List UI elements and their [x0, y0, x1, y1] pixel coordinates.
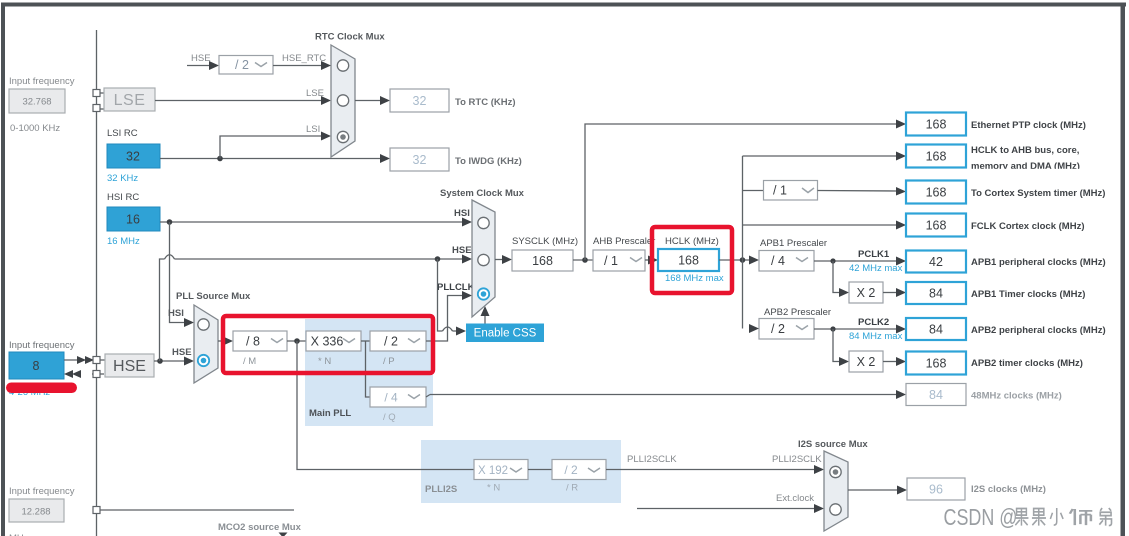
- multiplier PLLI2S *N: [474, 460, 528, 494]
- svg-text:APB2 Prescaler: APB2 Prescaler: [764, 307, 831, 318]
- annotation red rectangle PLL: [223, 316, 433, 373]
- svg-text:48MHz clocks (MHz): 48MHz clocks (MHz): [971, 391, 1062, 402]
- node To IWDG: [380, 148, 522, 171]
- wire HSE to system clock mux (with hop): [160, 255, 473, 362]
- divider /Q: [370, 387, 426, 423]
- node Ethernet PTP clock: [906, 113, 1086, 136]
- svg-text:PLLI2SCLK: PLLI2SCLK: [627, 454, 677, 465]
- annotation red ellipse HSE frequency: [6, 383, 77, 394]
- node I2S clocks: [907, 478, 1046, 500]
- svg-text:84: 84: [929, 287, 943, 301]
- svg-text:32.768: 32.768: [22, 97, 51, 108]
- svg-text:12.288: 12.288: [21, 507, 50, 518]
- wire X2 to APB1 timer box: [883, 288, 906, 297]
- svg-text:168: 168: [926, 186, 947, 200]
- svg-text:HCLK to AHB bus, core,: HCLK to AHB bus, core,: [971, 145, 1079, 156]
- svg-text:/ M: / M: [243, 356, 256, 367]
- svg-text:Input frequency: Input frequency: [9, 76, 75, 87]
- svg-text:168: 168: [532, 254, 553, 268]
- svg-text:To IWDG (KHz): To IWDG (KHz): [455, 156, 522, 167]
- wire system mux to SYSCLK: [495, 255, 512, 264]
- svg-text:Input frequency: Input frequency: [9, 340, 75, 351]
- wire bus to FCLK: [743, 221, 907, 230]
- oscillator HSI RC: [107, 192, 160, 247]
- svg-text:CSDN @: CSDN @: [944, 505, 1018, 531]
- svg-text:/ 4: / 4: [771, 254, 785, 268]
- wire *N to /R: [528, 469, 552, 471]
- svg-text:HSI: HSI: [454, 208, 470, 219]
- divider /M: [233, 331, 287, 367]
- RTC Clock Mux: [315, 32, 385, 158]
- wire PLL input to PLLI2S: [297, 341, 474, 470]
- svg-text:HSI RC: HSI RC: [107, 192, 139, 203]
- svg-text:LSE: LSE: [114, 92, 146, 109]
- oscillator LSI RC: [107, 128, 160, 184]
- wire X2 to APB2 timer box: [883, 357, 906, 366]
- wire APB2 to X2 multiplier: [830, 326, 849, 366]
- wire HSI to PLL source mux: [168, 222, 194, 327]
- svg-text:X 336: X 336: [311, 335, 344, 349]
- wire RTC mux output: [355, 96, 390, 105]
- svg-text:42 MHz max: 42 MHz max: [849, 263, 903, 274]
- wire branch to /Q: [366, 341, 371, 397]
- wire SYSCLK to AHB prescaler: [573, 257, 593, 263]
- svg-text:* N: * N: [487, 483, 500, 494]
- node To RTC: [390, 89, 516, 112]
- wire bus to HCLK AHB box: [743, 152, 907, 161]
- wire I2S mux output: [848, 486, 907, 495]
- wire /M to *N: [287, 338, 306, 344]
- prescaler APB1: [759, 238, 827, 271]
- svg-text:PLLI2S: PLLI2S: [425, 484, 457, 495]
- svg-text:Main PLL: Main PLL: [309, 408, 351, 419]
- annotation red rectangle HCLK: [652, 227, 732, 293]
- svg-text:/ 2: / 2: [771, 322, 785, 336]
- svg-text:/ R: / R: [566, 483, 578, 494]
- wire PLL mux to /M: [218, 337, 233, 346]
- svg-text:168: 168: [926, 150, 947, 164]
- svg-text:32: 32: [126, 150, 140, 164]
- PLL Source Mux: [176, 291, 251, 383]
- divider cortex /1: [764, 181, 818, 201]
- wire bus to cortex divider: [743, 190, 764, 192]
- wire Ext.clock to I2S mux: [637, 493, 824, 513]
- button Enable CSS: [466, 306, 544, 342]
- node HCLK: [658, 236, 724, 284]
- svg-text:32: 32: [413, 94, 427, 108]
- svg-text:LSI: LSI: [306, 124, 320, 135]
- svg-text:System Clock Mux: System Clock Mux: [440, 188, 525, 199]
- node FCLK: [906, 214, 1084, 237]
- wire SYSCLK to Ethernet PTP: [585, 120, 906, 261]
- svg-text:PLLCLK: PLLCLK: [437, 282, 475, 293]
- svg-text:32 KHz: 32 KHz: [107, 173, 138, 184]
- svg-text:PCLK2: PCLK2: [858, 317, 889, 328]
- block Main PLL background: [305, 319, 433, 426]
- svg-text:FCLK Cortex clock (MHz): FCLK Cortex clock (MHz): [971, 221, 1084, 232]
- svg-text:PCLK1: PCLK1: [858, 249, 890, 260]
- wire AHB to HCLK: [645, 256, 658, 265]
- divider PLLI2S /R: [552, 460, 606, 494]
- svg-text:HSE: HSE: [172, 347, 192, 358]
- svg-text:APB1 peripheral clocks (MHz): APB1 peripheral clocks (MHz): [971, 257, 1106, 268]
- wire PLLI2SCLK to I2S mux: [606, 454, 824, 474]
- wire MCO2 source: [93, 507, 294, 536]
- svg-text:16 MHz: 16 MHz: [107, 236, 140, 247]
- svg-text:168: 168: [926, 118, 947, 132]
- node HSE input frequency: [9, 340, 75, 398]
- multiplier *N: [306, 331, 361, 367]
- svg-text:96: 96: [929, 483, 943, 497]
- svg-text:/ 2: / 2: [235, 58, 249, 72]
- wire LSE to RTC mux: [155, 88, 331, 105]
- svg-text:I2S source Mux: I2S source Mux: [798, 439, 868, 450]
- svg-text:Enable CSS: Enable CSS: [474, 328, 537, 340]
- svg-text:168: 168: [926, 219, 947, 233]
- wire APB2 to PCLK2: [814, 317, 906, 342]
- svg-text:To Cortex System timer (MHz): To Cortex System timer (MHz): [971, 188, 1105, 199]
- svg-text:32: 32: [413, 153, 427, 167]
- node APB2 peripheral clocks: [906, 318, 1106, 340]
- node LSE input frequency: [9, 76, 75, 134]
- svg-text:I2S clocks (MHz): I2S clocks (MHz): [971, 484, 1046, 495]
- svg-text:APB1 Timer clocks (MHz): APB1 Timer clocks (MHz): [971, 289, 1085, 300]
- svg-text:/ 2: / 2: [384, 335, 398, 349]
- oscillator HSE: [105, 354, 154, 377]
- svg-text:0-1000 KHz: 0-1000 KHz: [10, 123, 60, 134]
- svg-text:84 MHz max: 84 MHz max: [849, 331, 903, 342]
- prescaler AHB: [593, 236, 655, 271]
- node APB1 peripheral clocks: [906, 251, 1106, 273]
- svg-text:AHB Prescaler: AHB Prescaler: [593, 236, 655, 247]
- svg-text:42: 42: [929, 255, 943, 269]
- svg-text:HSE: HSE: [452, 245, 472, 256]
- svg-text:SYSCLK (MHz): SYSCLK (MHz): [512, 236, 578, 247]
- node APB2 timer clocks: [906, 352, 1083, 375]
- wire HSE stub to RTC divider: [187, 53, 219, 70]
- block PLLI2S background: [421, 440, 621, 503]
- svg-text:X 192: X 192: [478, 465, 508, 477]
- multiplier APB2 timers X2: [849, 351, 883, 372]
- prescaler APB2: [749, 307, 831, 339]
- svg-text:HSE: HSE: [113, 358, 146, 375]
- svg-text:HCLK (MHz): HCLK (MHz): [665, 236, 719, 247]
- watermark CSDN: [944, 505, 1112, 531]
- svg-text:MCO2 source Mux: MCO2 source Mux: [218, 522, 302, 533]
- wire HSE crystal in/out: [64, 356, 105, 378]
- svg-text:RTC Clock Mux: RTC Clock Mux: [315, 32, 385, 43]
- svg-text:/ 8: / 8: [246, 335, 260, 349]
- svg-text:Ext.clock: Ext.clock: [776, 493, 814, 504]
- wire HSE_RTC to RTC mux: [273, 53, 331, 70]
- svg-text:X 2: X 2: [857, 355, 876, 369]
- System Clock Mux: [440, 188, 525, 317]
- node SYSCLK: [512, 236, 578, 271]
- svg-text:168 MHz max: 168 MHz max: [665, 273, 724, 284]
- node 48MHz clocks: [906, 384, 1062, 406]
- svg-text:PLL Source Mux: PLL Source Mux: [176, 291, 251, 302]
- svg-text:Input frequency: Input frequency: [9, 486, 75, 497]
- wire main input rail: [96, 30, 98, 536]
- svg-text:84: 84: [929, 388, 943, 402]
- svg-text:84: 84: [929, 323, 943, 337]
- svg-text:/ 4: / 4: [384, 391, 398, 405]
- svg-text:/ 1: / 1: [604, 254, 618, 268]
- svg-text:Ethernet PTP clock (MHz): Ethernet PTP clock (MHz): [971, 120, 1086, 131]
- wire HCLK to AHB bus: [719, 256, 759, 265]
- node HCLK to AHB bus: [906, 145, 1115, 176]
- wire HSE to PLL source mux: [154, 347, 194, 366]
- wire APB1 to X2 multiplier: [830, 258, 849, 297]
- svg-text:HSE: HSE: [191, 53, 211, 64]
- wire /P to PLLCLK: [426, 282, 475, 341]
- oscillator LSE: [93, 88, 155, 112]
- svg-text:LSI RC: LSI RC: [107, 128, 138, 139]
- svg-text:/ Q: / Q: [383, 412, 396, 423]
- svg-text:16: 16: [126, 213, 140, 227]
- divider /P: [370, 331, 426, 367]
- svg-text:* N: * N: [318, 356, 331, 367]
- svg-text:APB2 timer clocks (MHz): APB2 timer clocks (MHz): [971, 358, 1083, 369]
- wire HSE to Enable CSS (with hop): [438, 259, 467, 336]
- svg-text:/ 2: / 2: [564, 463, 578, 477]
- svg-text:X 2: X 2: [857, 286, 876, 300]
- divider HSE RTC /2: [219, 56, 273, 75]
- node Cortex system timer: [906, 181, 1105, 204]
- svg-text:LSE: LSE: [306, 88, 324, 99]
- svg-text:168: 168: [678, 254, 699, 268]
- I2S source Mux: [798, 439, 868, 531]
- svg-text:8: 8: [33, 359, 40, 373]
- node MCO2 input frequency: [9, 486, 75, 536]
- svg-text:168: 168: [926, 357, 947, 371]
- svg-text:APB1 Prescaler: APB1 Prescaler: [760, 238, 827, 249]
- svg-text:/ P: / P: [383, 356, 395, 367]
- wire *N to /P: [361, 340, 370, 342]
- wire cortex divider to timer box: [818, 187, 907, 196]
- svg-text:APB2 peripheral clocks (MHz): APB2 peripheral clocks (MHz): [971, 325, 1106, 336]
- svg-text:HSE_RTC: HSE_RTC: [282, 53, 326, 64]
- wire LSI to RTC mux and IWDG: [160, 124, 381, 161]
- wire /Q to 48MHz clocks: [426, 390, 906, 399]
- svg-text:PLLI2SCLK: PLLI2SCLK: [772, 454, 822, 465]
- multiplier APB1 timers X2: [849, 282, 883, 303]
- wire HCLK distribution bus: [742, 156, 744, 329]
- svg-text:To RTC (KHz): To RTC (KHz): [455, 97, 516, 108]
- node APB1 timer clocks: [906, 282, 1085, 304]
- wire HSI to system clock mux: [160, 218, 472, 227]
- svg-text:/ 1: / 1: [773, 184, 787, 198]
- svg-text:HSI: HSI: [168, 308, 184, 319]
- wire APB1 to PCLK1: [814, 249, 906, 274]
